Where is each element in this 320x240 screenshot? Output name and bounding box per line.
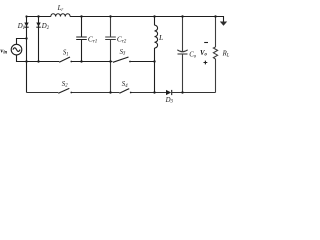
- junction dot: RL top corner: [214, 15, 216, 17]
- junction dot: L rail A: [153, 60, 155, 62]
- svg-text:L: L: [158, 33, 163, 42]
- wire: source bottom to rail A: [16, 55, 19, 62]
- junction dot: Cr2 rail A: [109, 60, 111, 62]
- svg-text:S3: S3: [120, 49, 126, 57]
- diode D1: [17, 17, 29, 93]
- junction dot: D2 rail A: [37, 60, 39, 62]
- svg-text:Co: Co: [189, 51, 197, 59]
- capacitor Cr1: [76, 17, 97, 62]
- switch S4: [119, 81, 131, 93]
- wire: rail B (bottom): [27, 92, 216, 94]
- ground: [216, 17, 228, 26]
- svg-text:D2: D2: [41, 23, 50, 31]
- svg-text:Vo: Vo: [200, 50, 208, 58]
- svg-text:vin: vin: [0, 47, 7, 55]
- switch S2: [58, 81, 72, 94]
- junction dot: Co top: [181, 15, 183, 17]
- diode D2: [36, 17, 49, 62]
- svg-text:S1: S1: [63, 49, 69, 57]
- capacitor Cr2: [105, 17, 127, 93]
- junction dot: D1 rail A: [25, 60, 27, 62]
- switch S3: [113, 49, 131, 63]
- voltage source Vin: [0, 44, 21, 55]
- output voltage label Vo: [200, 43, 208, 65]
- capacitor Co: [177, 17, 196, 93]
- svg-text:D3: D3: [165, 97, 174, 105]
- svg-text:Cr1: Cr1: [88, 35, 97, 45]
- inductor Lr: [51, 5, 70, 17]
- svg-text:RL: RL: [222, 51, 230, 59]
- svg-text:S4: S4: [122, 81, 128, 89]
- resistor RL: [213, 17, 229, 93]
- junction dot: Cr2 top: [109, 15, 111, 17]
- switch S1: [59, 49, 72, 62]
- svg-text:S2: S2: [62, 81, 68, 89]
- svg-text:Lr: Lr: [57, 5, 64, 13]
- junction dot: Cr1 rail A: [80, 60, 82, 62]
- inductor L: [155, 17, 164, 93]
- svg-text:D1: D1: [17, 23, 25, 31]
- junction dot: D1 top-rail corner: [25, 15, 27, 17]
- svg-text:Cr2: Cr2: [117, 35, 127, 45]
- junction dot: Co rail B: [181, 91, 183, 93]
- wire: rail A (middle): [17, 61, 155, 63]
- junction dot: Cr1 top: [80, 15, 82, 17]
- junction dot: D2 top: [37, 15, 39, 17]
- junction dot: Cr2 rail B: [109, 91, 111, 93]
- diode D3: [165, 90, 174, 105]
- wire: source top to D1 column: [17, 39, 27, 45]
- junction dot: source-D1 node: [25, 37, 27, 39]
- junction dot: L rail B: [153, 91, 155, 93]
- junction dot: L top: [153, 15, 155, 17]
- wire: top rail: [27, 16, 224, 18]
